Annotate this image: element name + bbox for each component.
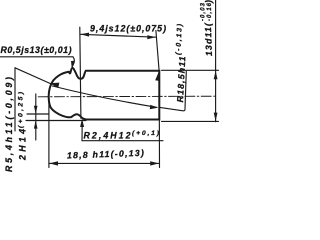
center line (axis), dash-dot <box>38 95 215 98</box>
arrowhead 13d11 top <box>214 71 218 80</box>
svg-text:(+0,25): (+0,25) <box>17 91 24 128</box>
vertical leader line left <box>14 68 16 131</box>
arrowhead up at top-right corner <box>155 72 160 81</box>
top-right extension line <box>162 69 219 71</box>
leader stub to R18,5 dim line, elbow up <box>160 71 187 111</box>
part outline: pin with spherical head <box>49 68 160 120</box>
2H14 dimension line vertical <box>35 94 37 140</box>
arrowhead 9,4 right <box>147 35 156 39</box>
radius line A to ball <box>15 68 50 84</box>
arrowhead 18,8 left <box>49 161 58 165</box>
9,4 dimension line <box>80 34 156 37</box>
long radius line B through part <box>53 86 157 107</box>
arrowhead 13d11 bottom <box>214 113 218 122</box>
arrowhead 2H14 lower (pointing up) <box>34 120 38 128</box>
arrowhead R2,4 leader <box>80 119 84 127</box>
9,4 left extension line (ball center) <box>80 27 81 118</box>
svg-text:9,4js12(±0,075): 9,4js12(±0,075) <box>90 23 166 33</box>
13d11 dimension line <box>215 0 217 122</box>
R2,4 leader underline <box>82 140 163 142</box>
arrowhead on ball (radius B) <box>50 83 60 88</box>
svg-text:-0,03: -0,03 <box>201 2 207 21</box>
bottom-right extension line <box>162 120 219 122</box>
shared right extension line <box>156 31 160 168</box>
18,8 left extension line <box>48 100 50 168</box>
arrowhead R0,5 leader <box>71 61 75 69</box>
18,8 dimension line <box>49 162 159 164</box>
leader underline for R0,5js13 <box>0 56 73 58</box>
arrowhead 18,8 right <box>150 161 159 165</box>
svg-text:): ) <box>204 0 214 4</box>
R2,4 leader vertical <box>81 123 83 141</box>
svg-text:-0,16: -0,16 <box>207 2 213 21</box>
arrowhead 9,4 left <box>80 33 89 37</box>
2H14 upper tick <box>27 113 49 115</box>
arrowhead line B at right face <box>150 105 159 109</box>
svg-text:R0,5js13(±0,01): R0,5js13(±0,01) <box>1 45 72 55</box>
leader curve R0,5 <box>72 57 74 67</box>
arrowhead 2H14 upper (pointing down) <box>34 106 38 114</box>
2H14 lower tick / bottom extension <box>26 120 86 122</box>
